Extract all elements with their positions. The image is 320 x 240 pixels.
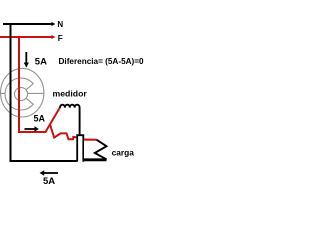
svg-text:F: F — [58, 34, 63, 43]
svg-text:Diferencia= (5A-5A)=0: Diferencia= (5A-5A)=0 — [59, 57, 145, 66]
svg-text:5A: 5A — [35, 56, 47, 67]
svg-text:5A: 5A — [34, 114, 46, 124]
svg-text:medidor: medidor — [53, 88, 88, 98]
svg-text:N: N — [57, 20, 63, 29]
svg-text:carga: carga — [112, 147, 135, 157]
svg-text:5A: 5A — [43, 176, 55, 187]
